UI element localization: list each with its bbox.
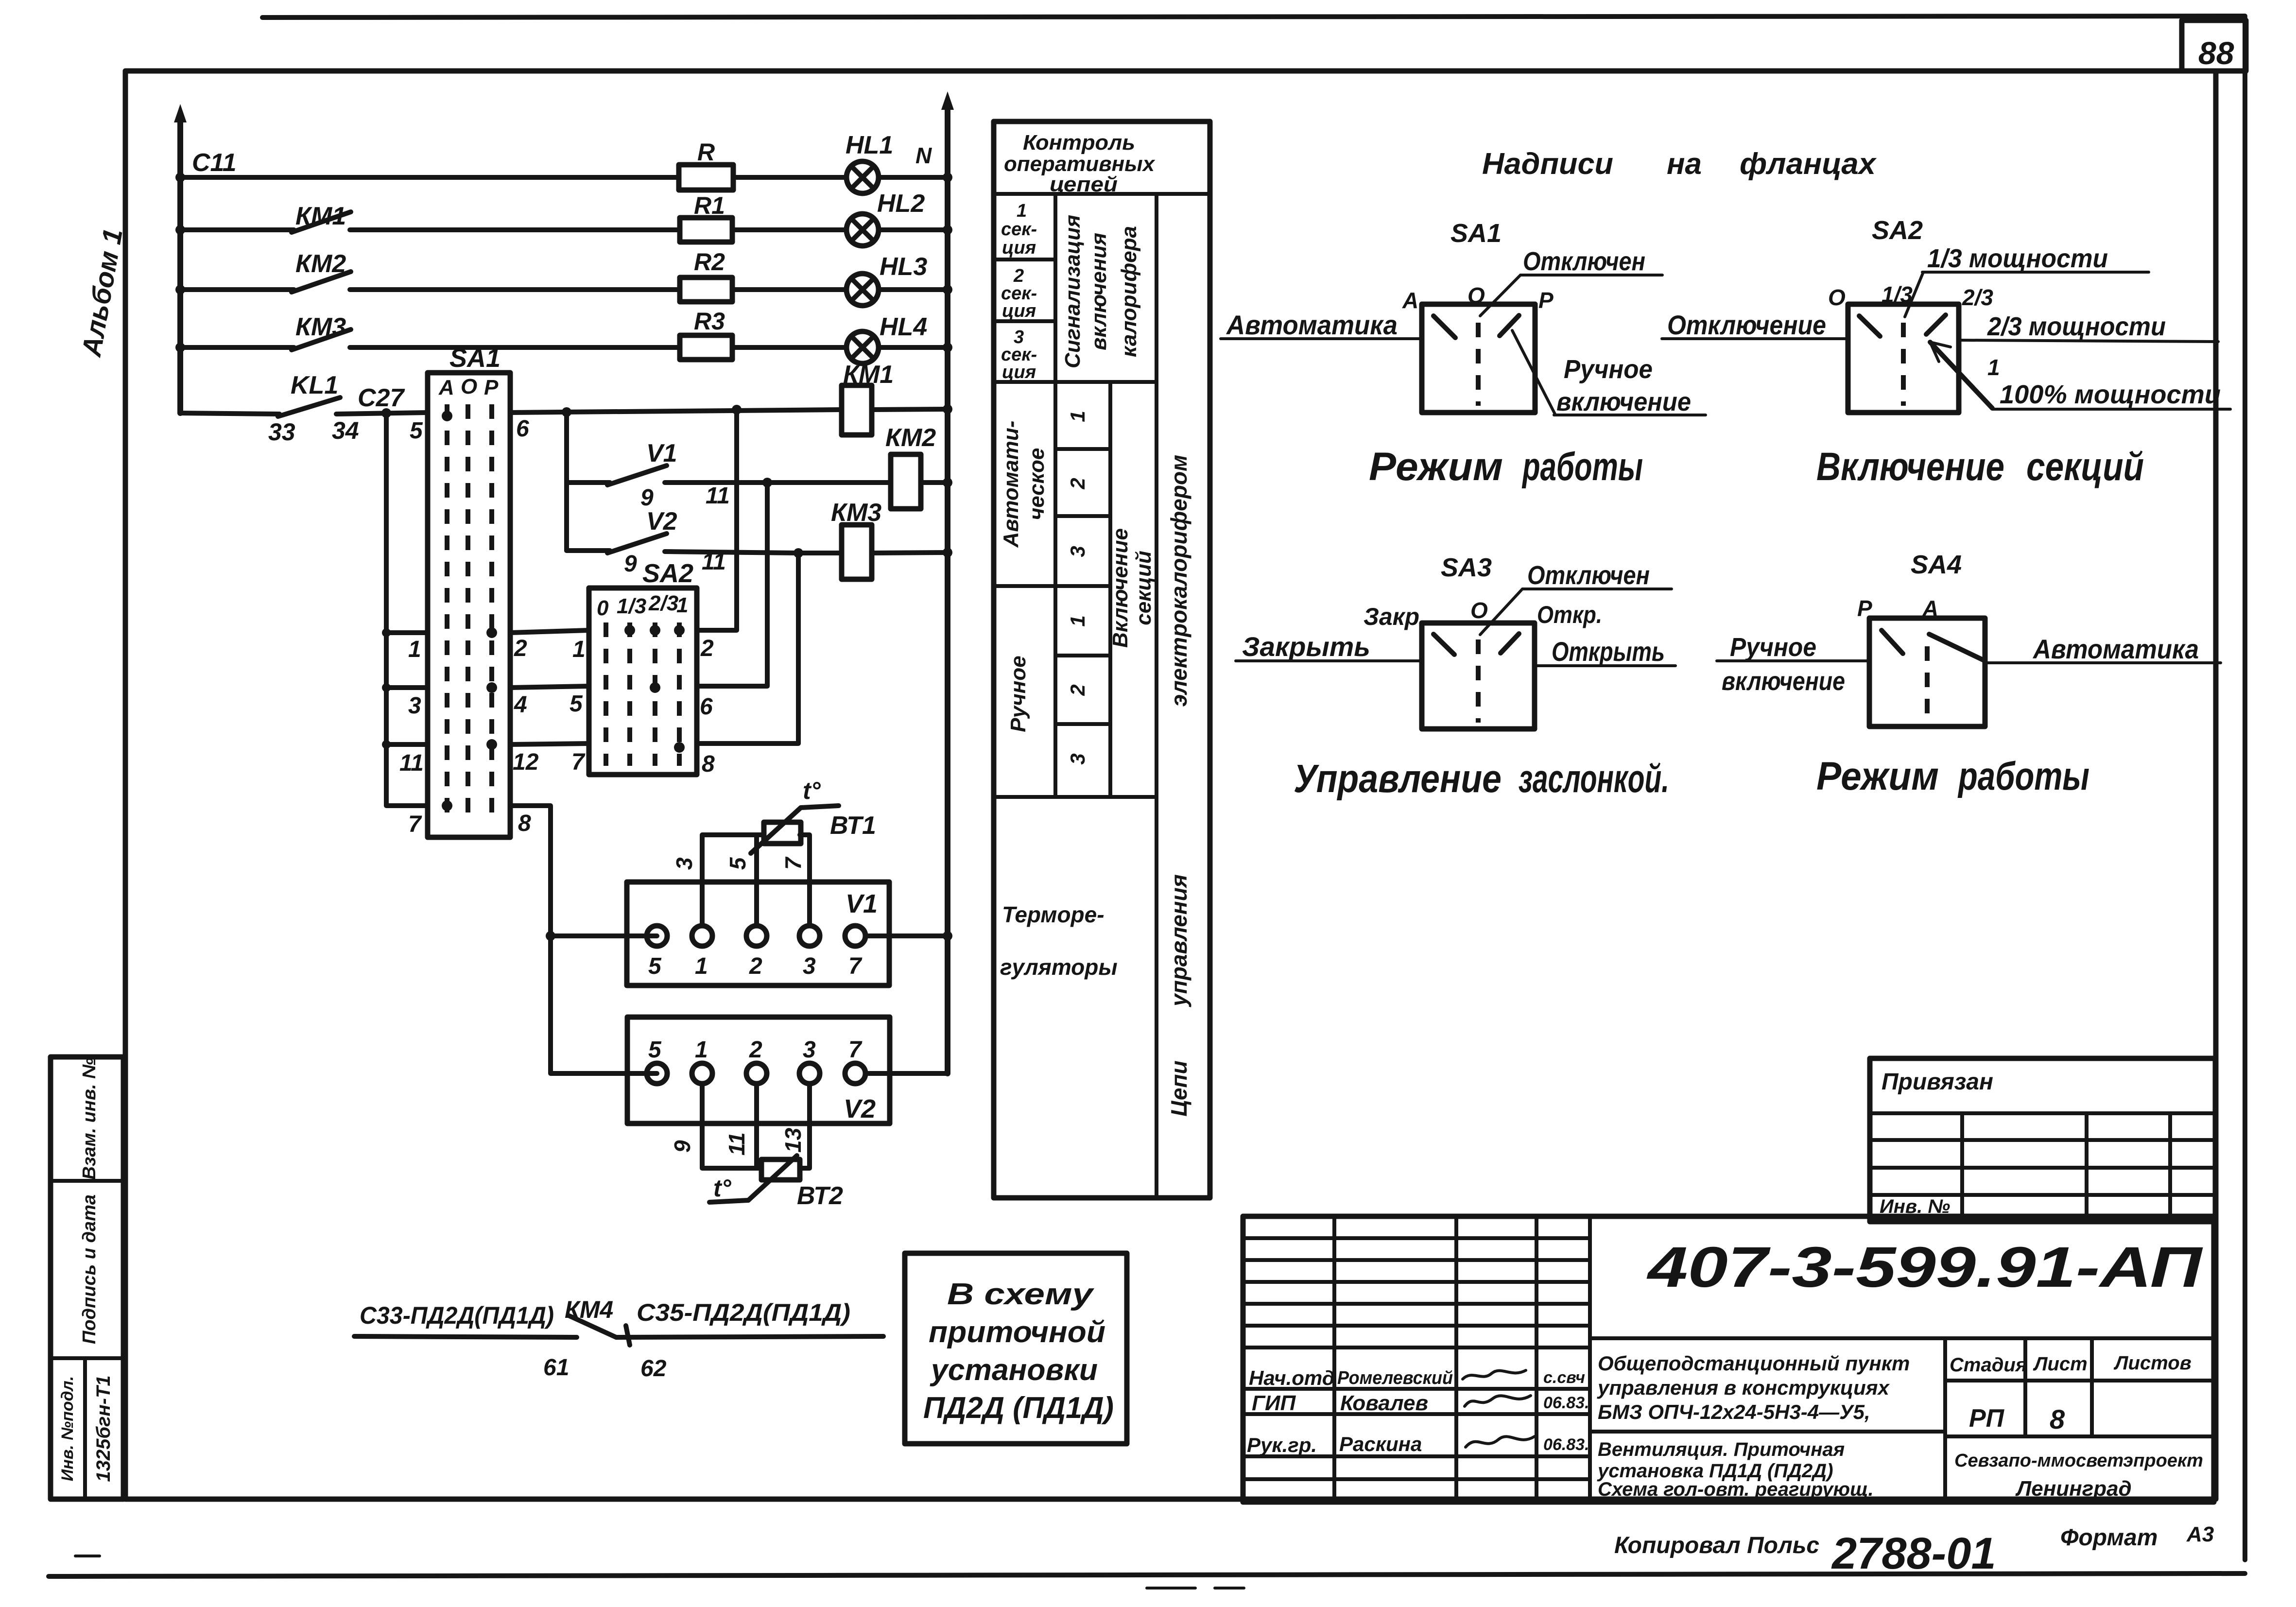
svg-text:3: 3 (408, 693, 421, 719)
svg-text:Рук.гр.: Рук.гр. (1247, 1434, 1317, 1456)
svg-text:Открыть: Открыть (1552, 636, 1665, 667)
wire row1 C11 (180, 175, 679, 180)
svg-text:SA1: SA1 (449, 344, 501, 373)
wire HL4 to N bus (879, 345, 948, 350)
svg-text:V1: V1 (846, 889, 878, 918)
svg-text:А: А (1922, 596, 1938, 621)
svg-text:1: 1 (695, 1037, 708, 1063)
svg-text:Вентиляция. Приточная: Вентиляция. Приточная (1598, 1439, 1845, 1460)
svg-text:3: 3 (803, 1037, 816, 1063)
svg-text:О: О (461, 375, 477, 398)
svg-text:Ромелевский: Ромелевский (1337, 1368, 1453, 1388)
resistor R3 (680, 335, 732, 360)
svg-text:Режим: Режим (1816, 754, 1939, 798)
junction down to SA2 pin2 (732, 405, 742, 415)
svg-text:Терморе-: Терморе- (1002, 902, 1105, 927)
svg-text:фланцах: фланцах (1740, 147, 1877, 181)
lamp HL2 (846, 214, 879, 246)
svg-text:Автомати-: Автомати- (999, 421, 1023, 548)
svg-text:2: 2 (700, 636, 714, 661)
svg-text:Режим: Режим (1369, 445, 1503, 489)
right page edge line (2243, 17, 2247, 1560)
svg-text:БМЗ ОПЧ-12х24-5Н3-4—У5,: БМЗ ОПЧ-12х24-5Н3-4—У5, (1598, 1400, 1870, 1423)
V2 terminals (647, 1063, 667, 1084)
lamp HL1 (846, 161, 879, 193)
svg-text:SA2: SA2 (642, 559, 693, 588)
svg-text:Севзапо-ммосветэпроект: Севзапо-ммосветэпроект (1954, 1451, 2203, 1471)
junction at x793 (381, 408, 391, 418)
section column divider (1053, 194, 1057, 382)
svg-text:N: N (915, 143, 932, 168)
SECTION: left margin (51, 226, 128, 1499)
wire R to HL1 (733, 175, 846, 180)
bottom page edge line (49, 1573, 2245, 1576)
svg-text:V2: V2 (844, 1094, 876, 1123)
switch SA2 flange (1662, 216, 2230, 489)
svg-text:Закрыть: Закрыть (1242, 631, 1370, 662)
svg-text:6: 6 (516, 416, 529, 442)
svg-text:приточной: приточной (929, 1315, 1105, 1349)
svg-text:Ковалев: Ковалев (1340, 1391, 1428, 1415)
svg-text:SA2: SA2 (1872, 216, 1923, 245)
wire KL1 to SA1 pin5 (336, 413, 428, 414)
svg-text:2/3: 2/3 (648, 591, 678, 615)
wire stub pin3 (386, 685, 428, 690)
svg-text:t°: t° (713, 1175, 732, 1202)
svg-text:ческое: ческое (1025, 448, 1049, 520)
svg-text:Ленинград: Ленинград (2015, 1477, 2132, 1501)
svg-text:1: 1 (676, 593, 688, 617)
signature table rows (1243, 1236, 1590, 1240)
svg-text:33: 33 (268, 418, 295, 446)
svg-text:Цепи: Цепи (1166, 1060, 1191, 1116)
svg-text:установки: установки (930, 1353, 1098, 1387)
svg-text:3: 3 (1066, 753, 1089, 764)
svg-text:KL1: KL1 (291, 371, 338, 399)
resistor R1 (680, 218, 732, 242)
svg-text:включение: включение (1722, 667, 1845, 696)
svg-text:88: 88 (2198, 35, 2234, 71)
svg-text:6: 6 (700, 694, 713, 720)
wire stub pin1 (386, 630, 428, 635)
svg-text:12: 12 (513, 749, 539, 775)
svg-text:Включение: Включение (1816, 445, 2004, 489)
svg-text:06.83.: 06.83. (1543, 1435, 1589, 1454)
svg-text:электрокалорифером: электрокалорифером (1166, 455, 1191, 707)
svg-text:1: 1 (1066, 615, 1089, 626)
svg-text:ция: ция (1002, 238, 1036, 258)
svg-text:Подпись и дата: Подпись и дата (79, 1194, 100, 1344)
SECTION: privyazka table (1870, 1058, 2215, 1222)
stadia list listov (1945, 1379, 2214, 1382)
svg-text:гуляторы: гуляторы (1000, 954, 1118, 980)
SECTION: middle table (994, 121, 1210, 1198)
svg-text:61: 61 (543, 1355, 569, 1381)
svg-text:7: 7 (848, 1037, 863, 1063)
svg-text:КМ1: КМ1 (295, 202, 346, 230)
svg-text:Общеподстанционный пункт: Общеподстанционный пункт (1598, 1352, 1910, 1375)
svg-text:включения: включения (1087, 233, 1111, 350)
svg-text:Привязан: Привязан (1882, 1069, 1993, 1095)
svg-text:2/3 мощности: 2/3 мощности (1987, 312, 2166, 341)
svg-text:Р: Р (1538, 288, 1554, 313)
svg-text:7: 7 (571, 749, 586, 775)
svg-text:калорифера: калорифера (1117, 226, 1141, 357)
lamp HL4 (846, 331, 879, 363)
svg-text:Ручное: Ручное (1730, 633, 1816, 662)
svg-text:7: 7 (848, 953, 863, 979)
svg-text:включение: включение (1556, 387, 1691, 416)
svg-text:5: 5 (725, 857, 750, 870)
svg-text:А: А (1402, 288, 1418, 313)
svg-text:ВТ1: ВТ1 (830, 812, 876, 840)
svg-text:HL4: HL4 (880, 313, 927, 341)
svg-text:100% мощности: 100% мощности (2000, 380, 2221, 409)
svg-text:В схему: В схему (947, 1278, 1095, 1311)
svg-text:ВТ2: ВТ2 (797, 1182, 843, 1210)
svg-text:ГИП: ГИП (1252, 1391, 1296, 1415)
svg-text:2: 2 (1066, 684, 1089, 696)
svg-text:SA1: SA1 (1450, 219, 1502, 248)
svg-text:Раскина: Раскина (1339, 1433, 1422, 1455)
wire R3 to HL4 (732, 345, 846, 350)
contact KM3 (180, 345, 294, 350)
contact KL1 (180, 413, 279, 414)
document number box (1590, 1336, 2214, 1340)
svg-text:управления: управления (1166, 874, 1191, 1007)
svg-text:7: 7 (408, 812, 422, 837)
svg-text:Контроль: Контроль (1023, 131, 1135, 155)
svg-text:Отключен: Отключен (1527, 561, 1650, 590)
svg-text:С27: С27 (358, 384, 405, 412)
svg-text:3: 3 (1066, 546, 1089, 557)
svg-text:1: 1 (1066, 411, 1089, 422)
svg-text:R: R (697, 138, 715, 166)
svg-text:Р: Р (484, 376, 499, 399)
svg-text:Откр.: Откр. (1537, 601, 1602, 628)
svg-text:8: 8 (702, 751, 715, 777)
svg-text:Закр.: Закр. (1364, 603, 1426, 630)
switch SA3 flange (1236, 553, 1675, 801)
svg-text:ция: ция (1002, 362, 1036, 382)
SECTION: bottom notes (1614, 1522, 2214, 1578)
svg-text:HL3: HL3 (880, 253, 927, 281)
small bottom-left tick (75, 1555, 100, 1557)
svg-text:Надписи: Надписи (1482, 147, 1613, 181)
thermistor BT2 wires (702, 1085, 761, 1168)
wire right (616, 1336, 883, 1337)
wire vertical left pins feeder (386, 413, 428, 806)
svg-text:заслонкой.: заслонкой. (1519, 757, 1669, 801)
thermistor BT2 (761, 1159, 800, 1180)
svg-text:1: 1 (572, 637, 586, 662)
svg-text:11: 11 (702, 549, 726, 575)
svg-text:Нач.отд: Нач.отд (1249, 1366, 1335, 1389)
svg-text:2: 2 (749, 953, 762, 979)
svg-text:О: О (1470, 598, 1488, 623)
thermistor BT1 (764, 822, 801, 844)
svg-text:SA4: SA4 (1911, 550, 1962, 579)
svg-text:работы: работы (1522, 445, 1643, 489)
top page edge line (262, 16, 2245, 17)
resistor R (679, 165, 733, 190)
svg-text:Р: Р (1857, 596, 1872, 621)
contact KM2 (180, 287, 294, 292)
svg-text:2/3: 2/3 (1962, 285, 1993, 310)
svg-text:4: 4 (514, 692, 527, 718)
svg-text:С33-ПД2Д(ПД1Д): С33-ПД2Д(ПД1Д) (360, 1302, 554, 1329)
svg-text:V2: V2 (646, 507, 677, 536)
svg-text:Листов: Листов (2113, 1352, 2192, 1374)
svg-text:2: 2 (1066, 478, 1089, 489)
SECTION: note box (905, 1253, 1127, 1444)
SECTION: circuit (174, 91, 954, 1073)
svg-text:SA3: SA3 (1441, 553, 1492, 582)
resistor R2 (680, 277, 732, 302)
svg-text:секций: секций (1132, 551, 1156, 625)
svg-text:КМ2: КМ2 (295, 250, 346, 278)
contact KM4 blade (570, 1316, 616, 1337)
wire HL2 to N bus (879, 227, 948, 232)
svg-text:на: на (1667, 147, 1702, 181)
svg-text:407-3-599.91-АП: 407-3-599.91-АП (1646, 1235, 2203, 1299)
svg-text:5: 5 (648, 1037, 662, 1063)
svg-text:3: 3 (672, 857, 697, 870)
switch SA1 flange (1221, 219, 1706, 489)
svg-text:1: 1 (1017, 201, 1027, 221)
svg-text:управления в конструкциях: управления в конструкциях (1597, 1376, 1890, 1399)
svg-text:62: 62 (640, 1356, 667, 1382)
svg-text:Автоматика: Автоматика (2032, 634, 2199, 664)
svg-text:2: 2 (514, 636, 527, 661)
svg-text:11: 11 (399, 750, 424, 776)
svg-text:1/3: 1/3 (1882, 282, 1913, 307)
svg-text:работы: работы (1957, 754, 2089, 798)
left bus junction dots (175, 173, 185, 182)
svg-text:R3: R3 (694, 308, 725, 335)
svg-text:Отключен: Отключен (1523, 247, 1645, 276)
thermistor BT1 wire (702, 835, 764, 926)
svg-text:R2: R2 (694, 248, 725, 276)
svg-text:С11: С11 (192, 149, 237, 177)
svg-text:1/3 мощности: 1/3 мощности (1927, 244, 2108, 273)
V1 terminals (647, 926, 667, 946)
wire SA1 pin12 to SA2 pin7 (510, 743, 589, 744)
contact KM1 (180, 227, 294, 232)
SECTION: flange labels (1221, 147, 2230, 801)
wire V1 t7 to N bus (865, 933, 948, 938)
wire V2 t7 to N bus (865, 936, 948, 1073)
wire left (354, 1336, 577, 1337)
svg-text:2: 2 (749, 1037, 762, 1063)
svg-text:Управление: Управление (1294, 757, 1502, 801)
svg-text:ция: ция (1002, 301, 1036, 321)
svg-text:8: 8 (518, 811, 531, 836)
N bus (945, 103, 950, 1073)
svg-text:Включение: Включение (1108, 528, 1132, 648)
svg-text:9: 9 (670, 1140, 695, 1153)
wire stub pin11 (386, 742, 428, 747)
left supply bus (177, 116, 183, 413)
svg-text:Отключение: Отключение (1667, 310, 1826, 340)
svg-text:Стадия: Стадия (1950, 1354, 2027, 1376)
lamp HL3 (846, 274, 879, 306)
svg-text:HL2: HL2 (877, 190, 925, 218)
svg-text:11: 11 (706, 483, 730, 509)
svg-text:Формат: Формат (2060, 1525, 2158, 1551)
svg-text:9: 9 (624, 551, 637, 577)
svg-text:ПД2Д (ПД1Д): ПД2Д (ПД1Д) (923, 1391, 1114, 1425)
N bus junction dots (943, 173, 952, 182)
svg-text:R1: R1 (694, 192, 725, 219)
svg-text:Схема гол-овт. реагирующ.: Схема гол-овт. реагирующ. (1598, 1479, 1874, 1500)
svg-text:34: 34 (332, 417, 359, 444)
description block (1943, 1338, 1947, 1502)
contact V1 (567, 480, 610, 485)
svg-text:8: 8 (2050, 1404, 2065, 1434)
svg-text:КМ3: КМ3 (295, 313, 346, 341)
svg-text:5: 5 (570, 691, 583, 717)
right column divider (1155, 194, 1158, 1198)
svg-text:Автоматика: Автоматика (1226, 310, 1398, 340)
small dashes bottom center (1147, 1587, 1195, 1590)
svg-text:V1: V1 (646, 439, 677, 467)
svg-text:Сигнализация: Сигнализация (1061, 215, 1085, 368)
wire HL1 to N bus (879, 175, 948, 180)
contact V2 (567, 548, 610, 553)
wire SA1 pin6 to KM1 coil (510, 410, 842, 413)
svg-text:Взам. инв. №: Взам. инв. № (79, 1058, 100, 1180)
svg-text:А: А (438, 376, 454, 399)
SECTION: title block (1243, 1216, 2214, 1502)
svg-text:С35-ПД2Д(ПД1Д): С35-ПД2Д(ПД1Д) (637, 1299, 850, 1326)
terminal tick 62 (626, 1326, 630, 1345)
svg-text:1/3: 1/3 (617, 594, 646, 618)
connector V1 box (627, 882, 889, 985)
sheet number box 88 (2182, 20, 2246, 71)
svg-text:13: 13 (780, 1127, 806, 1153)
svg-text:Лист: Лист (2033, 1353, 2088, 1375)
svg-text:1: 1 (1987, 355, 2000, 380)
svg-text:Ручное: Ручное (1564, 355, 1653, 384)
signature table verticals (1332, 1216, 1336, 1502)
SECTION: KM4 note (354, 1296, 883, 1382)
svg-text:7: 7 (780, 856, 806, 870)
svg-text:2788-01: 2788-01 (1831, 1529, 1996, 1578)
svg-text:t°: t° (803, 777, 821, 804)
wire R1 to HL2 (732, 227, 846, 232)
svg-text:1: 1 (408, 637, 421, 662)
svg-text:1: 1 (695, 953, 708, 979)
svg-text:сек-: сек- (1001, 219, 1037, 240)
svg-text:11: 11 (724, 1132, 749, 1156)
svg-text:с.свч: с.свч (1543, 1368, 1585, 1387)
svg-text:HL1: HL1 (846, 131, 893, 159)
svg-text:5: 5 (648, 953, 662, 979)
connector V2 box (627, 1017, 890, 1123)
svg-text:РП: РП (1969, 1404, 2005, 1433)
wire SA1 pin4 to SA2 pin5 (510, 686, 589, 688)
svg-text:А3: А3 (2186, 1522, 2214, 1546)
svg-text:Инв. №подл.: Инв. №подл. (58, 1376, 77, 1482)
svg-text:Ручное: Ручное (1006, 656, 1030, 732)
svg-text:06.83.: 06.83. (1543, 1394, 1589, 1412)
wire HL3 to N bus (879, 287, 948, 292)
wire SA1 pin2 to SA2 pin1 (510, 630, 589, 633)
svg-text:Копировал Польс: Копировал Польс (1614, 1533, 1819, 1558)
svg-text:3: 3 (803, 953, 816, 979)
svg-text:О: О (1828, 285, 1846, 310)
svg-text:1325бгн-Т1: 1325бгн-Т1 (93, 1375, 114, 1482)
junction V feeder (562, 407, 571, 417)
svg-text:5: 5 (410, 418, 423, 444)
switch SA4 flange (1717, 550, 2221, 798)
svg-text:0: 0 (597, 596, 609, 620)
svg-text:КМ2: КМ2 (885, 424, 936, 452)
wire SA1 pin8 down to connectors (510, 806, 657, 1073)
wire R2 to HL3 (732, 287, 846, 292)
stamp column boxes (51, 1057, 123, 1499)
svg-text:О: О (1467, 283, 1485, 308)
svg-text:секций: секций (2026, 445, 2144, 489)
